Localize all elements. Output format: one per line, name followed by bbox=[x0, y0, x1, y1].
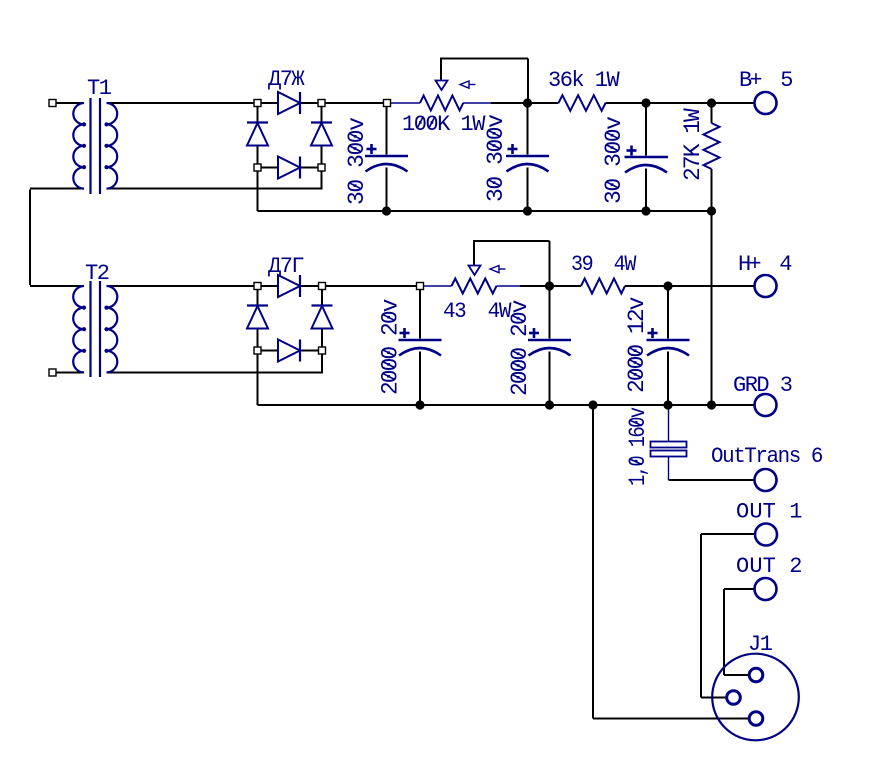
svg-text:OutTrans 6: OutTrans 6 bbox=[711, 444, 822, 469]
svg-text:36k 1W: 36k 1W bbox=[548, 68, 621, 93]
svg-text:OUT 2: OUT 2 bbox=[736, 554, 801, 579]
svg-text:J1: J1 bbox=[748, 632, 773, 657]
svg-text:30 300v: 30 300v bbox=[601, 116, 627, 204]
svg-text:2000 12v: 2000 12v bbox=[624, 296, 650, 393]
svg-text:H+ 4: H+ 4 bbox=[738, 252, 792, 277]
svg-text:OUT 1: OUT 1 bbox=[736, 500, 802, 525]
svg-text:B+ 5: B+ 5 bbox=[739, 68, 792, 93]
svg-text:30 300v: 30 300v bbox=[344, 117, 370, 205]
svg-text:T2: T2 bbox=[85, 261, 109, 286]
svg-text:Д7Ж: Д7Ж bbox=[268, 67, 305, 92]
svg-text:GRD 3: GRD 3 bbox=[733, 373, 792, 398]
svg-text:30 300v: 30 300v bbox=[483, 114, 509, 202]
svg-text:T1: T1 bbox=[87, 76, 112, 101]
svg-text:39 4W: 39 4W bbox=[571, 252, 637, 277]
svg-text:100K 1W: 100K 1W bbox=[402, 112, 486, 137]
svg-text:2000 20v: 2000 20v bbox=[507, 299, 533, 396]
svg-text:1,0 160v: 1,0 160v bbox=[625, 407, 651, 486]
svg-text:27K 1W: 27K 1W bbox=[680, 108, 706, 181]
svg-text:43 4W: 43 4W bbox=[443, 299, 512, 324]
svg-text:Д7Г: Д7Г bbox=[268, 254, 303, 279]
svg-text:2000 20v: 2000 20v bbox=[378, 298, 404, 395]
